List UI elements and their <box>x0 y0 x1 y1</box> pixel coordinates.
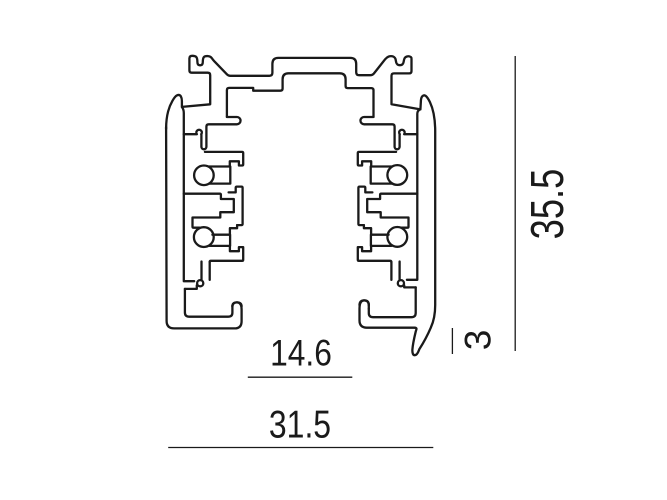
left lower tooth upper <box>212 225 237 235</box>
conductor circle upper right <box>387 165 407 185</box>
inner hat with support arms <box>227 73 374 117</box>
dimension text 35.5 <box>521 169 573 240</box>
right lower contact channel <box>371 235 392 246</box>
left hook ledge and riser <box>185 285 197 289</box>
left wall bottom, bottom lip and left hook <box>166 127 242 328</box>
right wall inner face upper <box>407 109 420 279</box>
conductor circle lower left <box>194 227 214 247</box>
left lower contact channel <box>210 235 231 246</box>
left wall inner face upper <box>182 107 194 281</box>
dimension line 14.6 <box>248 376 352 378</box>
right upper contact channel <box>371 167 392 184</box>
right lower ledge and blade <box>358 247 392 262</box>
dimension tick 3 <box>451 328 453 354</box>
dimension line 35.5 vertical <box>514 56 516 351</box>
right slot bracket <box>358 187 372 226</box>
right bottom lip, hook and tail underside <box>360 300 415 327</box>
conductor circle upper left <box>194 166 214 186</box>
svg-text:31.5: 31.5 <box>269 404 331 446</box>
left lower tooth zigzag <box>230 246 242 251</box>
right middle plinth staircase <box>367 194 417 228</box>
left middle plinth staircase <box>184 194 234 228</box>
right upper conductor pocket: ledge and tooth <box>358 152 396 167</box>
right hook ledge and riser <box>404 285 416 287</box>
left upper contact channel <box>209 167 230 184</box>
right lower tooth upper <box>364 225 389 235</box>
left arm with rounded cap, slot and bump ledge <box>201 117 240 149</box>
dimension text 3 <box>458 330 499 351</box>
right lower tooth zigzag <box>359 246 371 251</box>
svg-text:14.6: 14.6 <box>270 333 332 374</box>
outer silhouette top: left wall top, bulge, left ear, hat, right ear, right bulge, right wall, tail <box>166 56 435 355</box>
left slot bracket <box>229 187 243 226</box>
left finger with bulb <box>200 262 202 280</box>
conductor circle lower right <box>387 227 407 247</box>
right arm with rounded cap, slot and bump ledge <box>360 117 399 149</box>
svg-text:35.5: 35.5 <box>521 169 573 240</box>
dimension line 31.5 <box>168 447 433 449</box>
svg-text:3: 3 <box>458 330 499 351</box>
right finger with bulb <box>398 262 400 280</box>
left lower ledge and blade <box>210 247 244 262</box>
left upper conductor pocket: ledge and tooth <box>205 152 243 167</box>
